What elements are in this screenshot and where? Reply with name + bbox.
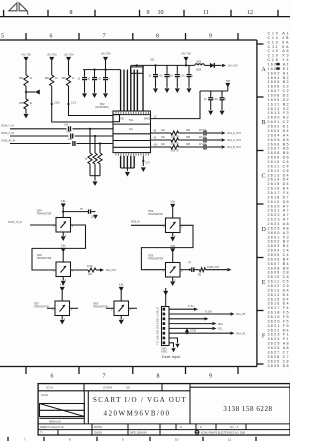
svg-text:4P 22k: 4P 22k xyxy=(199,137,207,139)
wire xyxy=(206,269,228,271)
svg-text:3: 3 xyxy=(71,309,73,311)
svg-text:SDA: SDA xyxy=(218,323,223,326)
capacitor C390 series xyxy=(68,126,70,131)
svg-text:S.KwS: S.KwS xyxy=(41,395,48,397)
title block top row xyxy=(38,390,190,392)
capacitor C372 xyxy=(176,65,178,73)
node with TP tap xyxy=(25,91,27,93)
svg-text:1612 X2: 1612 X2 xyxy=(268,107,289,111)
svg-text:7602: 7602 xyxy=(99,104,105,106)
signal flag xyxy=(222,138,226,141)
svg-text:1k: 1k xyxy=(30,103,33,105)
svg-text:100: 100 xyxy=(161,144,166,146)
svg-text:7608: 7608 xyxy=(93,304,99,306)
ground xyxy=(24,114,29,119)
svg-text:TP8: TP8 xyxy=(226,81,231,83)
svg-text:AVL: AVL xyxy=(129,128,134,131)
ground xyxy=(172,277,174,281)
svg-text:CVBS_OUT: CVBS_OUT xyxy=(207,267,220,269)
svg-text:3605 C4: 3605 C4 xyxy=(268,253,289,257)
svg-text:OT2R: OT2R xyxy=(190,330,196,332)
svg-text:C10 A6: C10 A6 xyxy=(268,49,289,53)
wire bus line 5b xyxy=(136,70,138,111)
svg-text:3626 A8: 3626 A8 xyxy=(268,346,289,350)
svg-text:B: B xyxy=(262,119,266,126)
ground xyxy=(187,88,192,93)
wire xyxy=(25,109,27,114)
svg-text:12: 12 xyxy=(247,10,253,16)
svg-text:C3T: C3T xyxy=(146,163,151,165)
svg-text:1: 1 xyxy=(53,226,55,228)
resistor bank rail xyxy=(90,175,100,177)
svg-text:420WM96VB/00: 420WM96VB/00 xyxy=(104,410,171,418)
ground xyxy=(92,93,97,98)
svg-text:10: 10 xyxy=(158,10,164,16)
svg-text:n: n xyxy=(192,76,194,78)
svg-text:3600 A3: 3600 A3 xyxy=(268,231,289,235)
svg-text:RGB_IN: RGB_IN xyxy=(131,222,140,224)
svg-text:4P 22k: 4P 22k xyxy=(199,144,207,146)
svg-text:3610 C8: 3610 C8 xyxy=(268,275,289,279)
transistor Q7609 stage box xyxy=(166,263,181,278)
svg-text:1k: 1k xyxy=(72,78,75,80)
svg-text:3628 C7: 3628 C7 xyxy=(268,355,289,359)
svg-text:2615 D4: 2615 D4 xyxy=(268,182,289,186)
wire output VGA_B_OUT xyxy=(151,146,171,148)
svg-text:3614 D4: 3614 D4 xyxy=(268,293,289,297)
ground xyxy=(62,277,64,281)
wire drop xyxy=(99,144,101,154)
wire to IC pin xyxy=(52,86,113,122)
svg-text:5600: 5600 xyxy=(196,70,202,72)
ferrite block on bus xyxy=(131,67,143,73)
svg-text:TRANSISTOR: TRANSISTOR xyxy=(34,306,49,309)
svg-text:3620 F5: 3620 F5 xyxy=(268,319,289,323)
resistor R381 xyxy=(171,138,179,142)
svg-text:2616 E4: 2616 E4 xyxy=(268,187,289,191)
svg-text:MADE: MADE xyxy=(144,118,151,121)
node output junction xyxy=(180,269,190,271)
svg-text:2609 D6: 2609 D6 xyxy=(268,156,289,160)
svg-text:VGA_R_OUT: VGA_R_OUT xyxy=(227,132,242,135)
svg-text:3617 F4: 3617 F4 xyxy=(268,306,289,310)
svg-text:CO O+: CO O+ xyxy=(46,388,54,390)
svg-text:2603 D4: 2603 D4 xyxy=(268,129,289,133)
svg-text:10: 10 xyxy=(160,76,163,78)
ground xyxy=(103,93,108,98)
svg-text:1613 F3: 1613 F3 xyxy=(268,111,289,115)
svg-text:TP: TP xyxy=(80,209,83,211)
resistor R370 xyxy=(88,153,92,164)
svg-text:6: 6 xyxy=(51,374,54,380)
wire drop xyxy=(94,136,96,153)
svg-text:7605: 7605 xyxy=(37,255,43,257)
svg-text:7: 7 xyxy=(103,34,106,40)
node junction xyxy=(89,128,91,130)
svg-text:7604: 7604 xyxy=(37,211,43,213)
svg-text:2617 F4: 2617 F4 xyxy=(268,191,289,195)
svg-text:2605 A5: 2605 A5 xyxy=(268,138,289,142)
svg-text:C10 5A: C10 5A xyxy=(268,40,290,44)
resistor R41 xyxy=(199,268,205,272)
title block frame xyxy=(38,384,290,435)
svg-text:6.8k: 6.8k xyxy=(60,285,65,287)
capacitor C371 xyxy=(166,65,168,73)
connector pin pads xyxy=(163,308,166,344)
svg-text:2611 C4: 2611 C4 xyxy=(268,164,289,168)
wire to IC right pin xyxy=(151,91,201,119)
wire bus to IC top pins xyxy=(120,70,122,111)
svg-text:410: 410 xyxy=(154,144,159,146)
right border xyxy=(256,40,258,367)
svg-text:2623 A7: 2623 A7 xyxy=(268,218,289,222)
svg-text:10: 10 xyxy=(204,99,207,101)
svg-text:A: A xyxy=(261,66,266,73)
rail xyxy=(200,90,228,92)
ground xyxy=(153,88,158,93)
svg-text:1: 1 xyxy=(53,270,55,272)
svg-text:+5V_TDA: +5V_TDA xyxy=(21,54,31,57)
svg-text:C1.A: C1.A xyxy=(71,102,77,105)
svg-text:3616 E4: 3616 E4 xyxy=(268,302,289,306)
svg-text:3624 F1: 3624 F1 xyxy=(268,337,289,341)
connector K950 body xyxy=(162,307,170,346)
wire pin5 SCL xyxy=(169,327,213,329)
wire stage1 out wrap to stage2 in xyxy=(32,225,86,270)
svg-text:C10 X3: C10 X3 xyxy=(268,54,289,58)
svg-text:5: 5 xyxy=(1,34,4,40)
signal flag xyxy=(222,131,226,134)
wire xyxy=(68,61,70,75)
capacitor C41 series xyxy=(191,267,193,272)
svg-text:3629 C8: 3629 C8 xyxy=(268,359,289,363)
svg-text:2604 A4: 2604 A4 xyxy=(268,133,289,137)
net reference list column xyxy=(268,32,290,368)
svg-text:10: 10 xyxy=(175,438,179,441)
transistor Q7606 stage box xyxy=(166,218,181,233)
svg-text:3619 F5: 3619 F5 xyxy=(268,315,289,319)
svg-text:DATE 2009-09-0: DATE 2009-09-0 xyxy=(130,432,148,435)
svg-text:1606 C2: 1606 C2 xyxy=(268,85,289,89)
svg-text:VGA_B_OUT: VGA_B_OUT xyxy=(227,146,241,149)
svg-text:VGA_HS: VGA_HS xyxy=(236,313,246,316)
svg-text:C13A: C13A xyxy=(54,102,60,105)
svg-text:3603 B4: 3603 B4 xyxy=(268,244,289,248)
svg-text:E: E xyxy=(262,279,266,286)
transistor Q7604 stage box xyxy=(56,218,71,233)
svg-text:3623 F1: 3623 F1 xyxy=(268,333,289,337)
svg-text:2622 A7: 2622 A7 xyxy=(268,213,289,217)
wire pin7 to ground xyxy=(169,338,178,343)
svg-text:3607 B4: 3607 B4 xyxy=(268,262,289,266)
svg-text:C: C xyxy=(262,173,266,180)
svg-text:1k: 1k xyxy=(55,78,58,80)
svg-text:TY: TY xyxy=(40,433,43,435)
schematic top border / inner ruler xyxy=(0,39,257,41)
svg-text:1609 D2: 1609 D2 xyxy=(268,98,289,102)
svg-text:2624 A8: 2624 A8 xyxy=(268,222,289,226)
svg-text:+5V_TDA: +5V_TDA xyxy=(47,54,57,57)
IC bottom pin strip xyxy=(116,153,149,155)
svg-text:Tuner Input: Tuner Input xyxy=(162,355,180,359)
svg-text:CVBS_AV_IN: CVBS_AV_IN xyxy=(1,139,15,142)
svg-text:+8V_TDA: +8V_TDA xyxy=(100,53,110,56)
capacitor C370 xyxy=(155,65,157,73)
svg-text:1605 B2: 1605 B2 xyxy=(268,80,289,84)
svg-text:3R6: 3R6 xyxy=(45,78,50,80)
node junction xyxy=(99,142,101,144)
svg-text:SCL: SCL xyxy=(218,329,223,331)
svg-text:1604 B2: 1604 B2 xyxy=(268,76,289,80)
wire pin8 to ground xyxy=(169,343,174,348)
capacitor C380 xyxy=(210,91,212,97)
wire into connector top with direction arrow xyxy=(165,288,167,307)
wire xyxy=(51,61,53,75)
bottom border xyxy=(0,366,257,368)
svg-text:TDA: TDA xyxy=(129,119,134,122)
svg-text:49: 49 xyxy=(154,137,157,139)
svg-text:C11 5A: C11 5A xyxy=(268,45,290,49)
svg-text:100: 100 xyxy=(161,130,166,132)
svg-text:2600 A2: 2600 A2 xyxy=(268,116,289,120)
svg-text:7: 7 xyxy=(24,438,26,441)
wire stage3 out wrap to stage4 in xyxy=(141,225,193,269)
projection symbol cell xyxy=(87,391,89,424)
svg-text:3615 D4: 3615 D4 xyxy=(268,297,289,301)
transistor Q7608 stage box xyxy=(114,301,129,316)
svg-text:MC: MC xyxy=(121,119,125,121)
svg-text:2607 A6: 2607 A6 xyxy=(268,147,289,151)
wire stubs stage5 xyxy=(47,307,55,309)
wire pin2 VGA_HS xyxy=(169,313,231,315)
svg-text:n: n xyxy=(108,79,110,81)
svg-text:3606 B4: 3606 B4 xyxy=(268,257,289,261)
svg-text:SVHS_Y_IN: SVHS_Y_IN xyxy=(1,126,14,128)
svg-text:2606 B5: 2606 B5 xyxy=(268,142,289,146)
svg-text:2612 C8: 2612 C8 xyxy=(268,169,289,173)
svg-text:2809+0+63: 2809+0+63 xyxy=(49,421,61,423)
bottom outer ruler faint numbers xyxy=(24,438,231,441)
bottom inner ruler ticks xyxy=(26,367,238,375)
svg-text:3138 158 6228: 3138 158 6228 xyxy=(223,405,272,413)
wire output VGA_R_OUT xyxy=(151,132,171,134)
svg-text:100: 100 xyxy=(161,137,166,139)
svg-text:TRANSISTOR: TRANSISTOR xyxy=(37,257,52,260)
svg-text:8: 8 xyxy=(156,34,159,40)
svg-text:2613 D4: 2613 D4 xyxy=(268,173,289,177)
svg-text:3608 B8: 3608 B8 xyxy=(268,266,289,270)
svg-text:3609 C8: 3609 C8 xyxy=(268,271,289,275)
svg-text:TRANSISTOR: TRANSISTOR xyxy=(148,213,163,216)
wire bundle IC bottom pins xyxy=(120,156,122,168)
resistor R3602 xyxy=(24,99,28,109)
document number box xyxy=(189,384,191,424)
svg-text:1: 1 xyxy=(52,309,54,311)
svg-text:1607 C2: 1607 C2 xyxy=(268,89,289,93)
svg-text:9: 9 xyxy=(147,10,150,16)
copyright row xyxy=(195,430,199,434)
svg-text:10: 10 xyxy=(149,76,152,78)
svg-text:1602 A1: 1602 A1 xyxy=(268,71,289,75)
svg-text:+8V_TDA: +8V_TDA xyxy=(181,53,191,56)
svg-text:2621 A7: 2621 A7 xyxy=(268,209,289,213)
svg-text:3: 3 xyxy=(130,309,132,311)
svg-text:3R6: 3R6 xyxy=(19,103,24,105)
ground xyxy=(93,181,98,186)
transistor Q7607 stage box xyxy=(55,301,70,316)
svg-text:9: 9 xyxy=(209,374,212,380)
svg-text:4P 22k: 4P 22k xyxy=(199,130,207,132)
svg-text:7: 7 xyxy=(103,374,106,380)
svg-text:100: 100 xyxy=(88,274,93,276)
svg-text:TRANSISTOR: TRANSISTOR xyxy=(37,213,52,216)
svg-text:3: 3 xyxy=(72,226,74,228)
svg-text:3622 D4: 3622 D4 xyxy=(268,328,289,332)
capacitor C360 xyxy=(84,70,86,77)
resistor R382 xyxy=(171,145,179,149)
wire xyxy=(214,64,221,66)
svg-text:3621 F5: 3621 F5 xyxy=(268,324,289,328)
wire stubs stage6 xyxy=(106,307,114,309)
svg-text:C14: C14 xyxy=(66,132,71,134)
svg-text:TRANSISTOR: TRANSISTOR xyxy=(93,306,108,309)
wire bus line 6 xyxy=(142,65,144,111)
ground xyxy=(220,111,225,116)
svg-text:TDA_OUT: TDA_OUT xyxy=(106,269,117,272)
name/date rows xyxy=(38,423,290,425)
svg-text:KONIL PHILIPS ELECTRONICS N.V.: KONIL PHILIPS ELECTRONICS N.V. 1998 xyxy=(201,433,246,435)
top outer ruler ticks xyxy=(4,10,278,17)
wire xyxy=(105,61,107,70)
signal flag +5V_VGA xyxy=(222,64,226,67)
svg-text:10: 10 xyxy=(170,76,173,78)
wire output VGA_G_OUT xyxy=(151,139,171,141)
svg-text:3: 3 xyxy=(181,271,183,273)
bottom outer ruler ticks xyxy=(8,437,256,441)
capacitor C362 xyxy=(105,70,107,77)
svg-text:2625 A8: 2625 A8 xyxy=(268,226,289,230)
wire to IC pin xyxy=(69,86,114,116)
IC internal dividers xyxy=(113,123,151,125)
svg-text:10: 10 xyxy=(215,99,218,101)
svg-text:SVHS_Y5_IN: SVHS_Y5_IN xyxy=(8,222,22,224)
svg-text:1: 1 xyxy=(111,309,113,311)
IC bottom-right pin to ground xyxy=(142,156,144,166)
svg-text:VGA_VS: VGA_VS xyxy=(236,332,246,335)
wire pin3 xyxy=(169,318,205,320)
svg-text:D: D xyxy=(200,427,202,429)
svg-text:2610 C6: 2610 C6 xyxy=(268,160,289,164)
capacitor C373 xyxy=(188,65,190,73)
svg-text:33R: 33R xyxy=(186,130,191,132)
svg-text:SCART I/O / VGA OUT: SCART I/O / VGA OUT xyxy=(93,396,187,404)
svg-text:NAME KC Drive/Inv Ho: NAME KC Drive/Inv Ho xyxy=(40,426,64,429)
svg-text:3: 3 xyxy=(72,270,74,272)
svg-text:L602: L602 xyxy=(196,62,202,64)
resistor R372 xyxy=(98,153,102,164)
svg-text:3627 C7: 3627 C7 xyxy=(268,350,289,354)
zone boundary ticks right margin xyxy=(257,44,264,364)
svg-text:TP: TP xyxy=(188,263,191,265)
node bias tap stage1 xyxy=(63,211,88,213)
svg-text:KIPDOL: KIPDOL xyxy=(94,427,103,429)
inner top ruler ticks xyxy=(26,33,238,40)
resistor R380 xyxy=(171,131,179,135)
svg-text:C14: C14 xyxy=(68,139,73,141)
svg-text:N: N xyxy=(180,427,182,429)
wire xyxy=(204,64,210,66)
ground xyxy=(175,88,180,93)
svg-text:8: 8 xyxy=(69,438,71,441)
svg-text:[R]: [R] xyxy=(198,275,201,277)
svg-text:2614 D4: 2614 D4 xyxy=(268,178,289,182)
svg-text:7606: 7606 xyxy=(148,211,154,213)
svg-text:33R: 33R xyxy=(186,144,191,146)
resistor R371 xyxy=(93,153,97,164)
svg-text:6.8k: 6.8k xyxy=(119,285,124,287)
diode D6 xyxy=(210,63,214,68)
svg-text:+5V_TDA: +5V_TDA xyxy=(63,54,73,57)
svg-text:OCTAVE: OCTAVE xyxy=(103,387,113,390)
ground xyxy=(61,316,63,320)
wire drop xyxy=(89,129,91,153)
svg-text:+5V_VGA: +5V_VGA xyxy=(228,65,239,68)
svg-text:3601 X3: 3601 X3 xyxy=(268,235,289,239)
wire xyxy=(25,61,27,75)
svg-text:2601 C2: 2601 C2 xyxy=(268,120,289,124)
signal flag TDA_OUT xyxy=(100,268,104,271)
svg-text:100k: 100k xyxy=(91,217,97,219)
svg-text:VGA_G_OUT: VGA_G_OUT xyxy=(227,139,242,142)
svg-text:10: 10 xyxy=(182,76,185,78)
capacitor C392 series xyxy=(72,141,74,146)
net list link squares xyxy=(276,63,279,65)
rail xyxy=(83,69,121,71)
svg-text:C10 2B: C10 2B xyxy=(268,36,290,40)
svg-text:75: 75 xyxy=(85,159,88,161)
svg-text:3604 C4: 3604 C4 xyxy=(268,249,289,253)
svg-text:C14: C14 xyxy=(64,124,69,126)
svg-text:n: n xyxy=(225,99,227,101)
svg-text:K950: K950 xyxy=(162,351,168,353)
wire pin1 xyxy=(169,308,194,310)
svg-text:470R: 470R xyxy=(87,266,93,268)
svg-text:7609: 7609 xyxy=(148,256,154,258)
IC sub-block MC xyxy=(113,115,120,122)
svg-text:6: 6 xyxy=(50,34,53,40)
svg-text:P_5V0: P_5V0 xyxy=(205,312,213,314)
svg-text:TO UNION BOARD CABLE: TO UNION BOARD CABLE xyxy=(157,307,160,345)
svg-text:1: 1 xyxy=(163,226,165,228)
svg-text:3612 C5: 3612 C5 xyxy=(268,284,289,288)
rail upper right xyxy=(131,64,195,66)
svg-text:CO — F: CO — F xyxy=(230,427,239,429)
svg-text:F: F xyxy=(262,332,266,339)
ground xyxy=(120,316,122,320)
signal flag xyxy=(222,145,226,148)
ground xyxy=(62,232,64,236)
svg-text:2620 A7: 2620 A7 xyxy=(268,204,289,208)
wire pin4 SDA xyxy=(169,323,213,325)
resistor R760 output stage2 xyxy=(88,268,96,272)
svg-text:6.8k: 6.8k xyxy=(61,246,66,248)
svg-text:6.8k: 6.8k xyxy=(61,201,66,203)
signal flag xyxy=(228,268,232,271)
ground xyxy=(141,167,146,172)
svg-text:3R6: 3R6 xyxy=(62,78,67,80)
svg-text:10: 10 xyxy=(88,79,91,81)
svg-text:0350: 0350 xyxy=(162,348,168,350)
